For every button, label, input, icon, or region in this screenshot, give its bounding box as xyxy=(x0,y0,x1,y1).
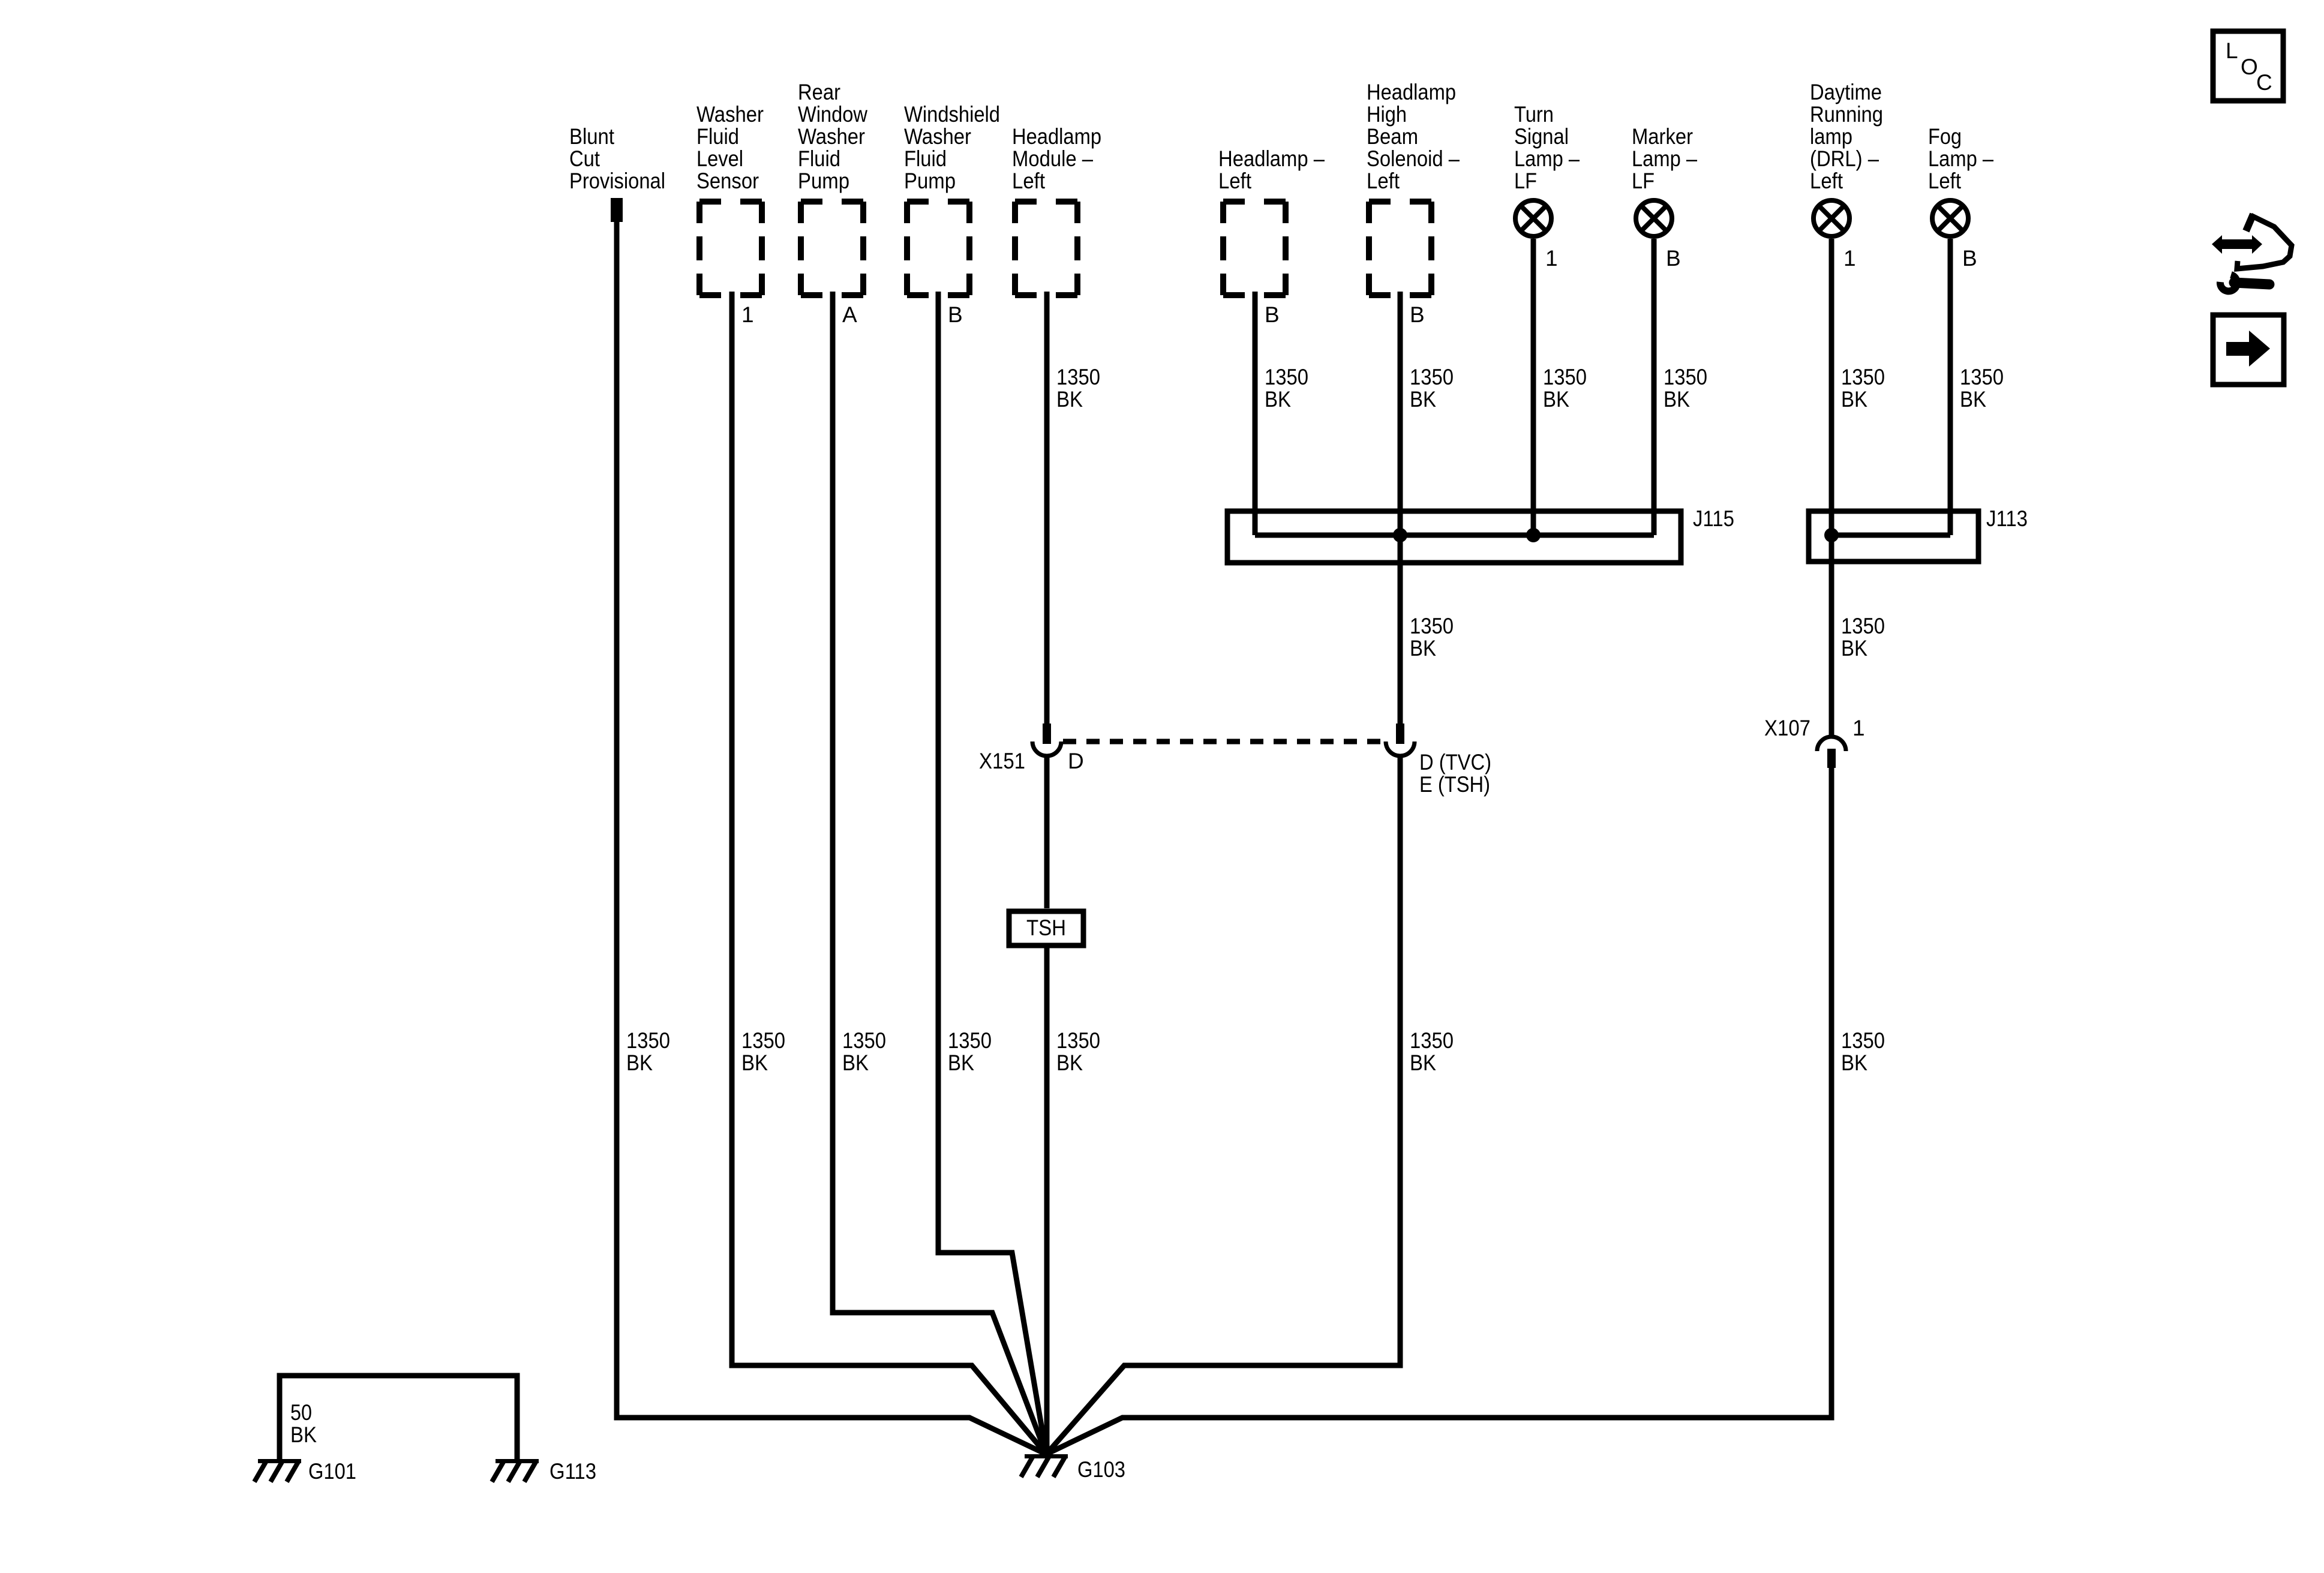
svg-text:Fluid: Fluid xyxy=(696,124,739,149)
wire: solenoid below TVC connector to G103 xyxy=(1046,756,1400,1454)
svg-text:J113: J113 xyxy=(1986,506,2028,531)
svg-text:B: B xyxy=(1666,246,1681,271)
wire: blunt cut provisional to G103 xyxy=(617,222,1046,1454)
pin 1: washer fluid level sensor xyxy=(741,302,754,327)
svg-text:A: A xyxy=(842,302,857,327)
pin B: marker lamp xyxy=(1666,246,1681,271)
svg-text:G101: G101 xyxy=(308,1459,356,1484)
ground G103 xyxy=(1021,1454,1068,1477)
svg-text:1350: 1350 xyxy=(626,1028,670,1053)
svg-text:BK: BK xyxy=(1056,1050,1083,1075)
svg-text:Rear: Rear xyxy=(798,80,840,104)
wire label 1350 BK (DRL) xyxy=(1841,365,1885,412)
svg-text:BK: BK xyxy=(1410,636,1436,661)
svg-text:B: B xyxy=(1265,302,1280,327)
wire: fog lamp to J113 xyxy=(1948,239,1953,535)
wire label 1350 BK (windshield pump, lower) xyxy=(948,1028,992,1075)
wire: rear window washer fluid pump pin A to G103 xyxy=(833,292,1046,1454)
label: Blunt Cut Provisional xyxy=(569,124,665,193)
lamp: daytime running lamp DRL left xyxy=(1813,200,1849,236)
svg-text:BK: BK xyxy=(1410,1050,1436,1075)
svg-text:Level: Level xyxy=(696,146,743,171)
label: Headlamp Module - Left xyxy=(1012,124,1101,193)
svg-text:TSH: TSH xyxy=(1026,915,1066,940)
svg-text:Fog: Fog xyxy=(1928,124,1962,149)
svg-text:1350: 1350 xyxy=(842,1028,886,1053)
label TSH xyxy=(1026,915,1066,940)
LOC reference box xyxy=(2213,31,2283,101)
connector: rear window washer fluid pump (dashed box) xyxy=(801,202,863,295)
svg-text:Headlamp: Headlamp xyxy=(1367,80,1456,104)
wire label 1350 BK (below J115) xyxy=(1410,614,1454,661)
svg-text:Provisional: Provisional xyxy=(569,169,665,193)
label: Turn Signal Lamp - LF xyxy=(1514,102,1580,193)
wire: washer fluid level sensor pin 1 to G103 xyxy=(732,292,1046,1454)
label G101 xyxy=(308,1459,356,1484)
svg-text:(DRL) –: (DRL) – xyxy=(1810,146,1879,171)
svg-text:1350: 1350 xyxy=(1056,365,1100,389)
wire: DRL lamp through J113 to X107 xyxy=(1829,239,1834,737)
svg-text:Blunt: Blunt xyxy=(569,124,615,149)
label G113 xyxy=(550,1459,596,1484)
wire: TSH to G103 xyxy=(1044,948,1050,1454)
svg-text:BK: BK xyxy=(1841,1050,1867,1075)
label: Windshield Washer Fluid Pump xyxy=(904,102,1000,193)
svg-text:1350: 1350 xyxy=(1841,365,1885,389)
wire label 1350 BK (solenoid) xyxy=(1410,365,1454,412)
svg-text:1350: 1350 xyxy=(1960,365,2004,389)
wire label 1350 BK (blunt cut, lower) xyxy=(626,1028,670,1075)
svg-text:Daytime: Daytime xyxy=(1810,80,1882,104)
svg-text:BK: BK xyxy=(1543,387,1569,412)
wire label 1350 BK (headlamp module, lower) xyxy=(1056,1028,1100,1075)
svg-text:Windshield: Windshield xyxy=(904,102,1000,127)
label: Rear Window Washer Fluid Pump xyxy=(798,80,867,193)
svg-text:1350: 1350 xyxy=(1410,614,1454,638)
label: Marker Lamp - LF xyxy=(1632,124,1697,193)
J115 internal bus wire xyxy=(1255,533,1654,538)
svg-text:J115: J115 xyxy=(1693,506,1734,531)
svg-text:1350: 1350 xyxy=(1841,614,1885,638)
pin B: fog lamp xyxy=(1962,246,1977,271)
wire: headlamp left pin B to J115 xyxy=(1253,292,1258,535)
connector: headlamp left (dashed box) xyxy=(1223,202,1286,295)
label J113 xyxy=(1986,506,2028,531)
lamp: turn signal lamp LF xyxy=(1515,200,1551,236)
pin 1: turn signal lamp xyxy=(1545,246,1558,271)
pin D label (X151) xyxy=(1068,749,1084,773)
wire: turn signal lamp to J115 xyxy=(1531,239,1536,535)
blunt cut terminal xyxy=(611,198,623,222)
svg-text:D (TVC): D (TVC) xyxy=(1419,750,1491,775)
connector: windshield washer fluid pump (dashed box) xyxy=(907,202,969,295)
wire label 1350 BK (headlamp left) xyxy=(1265,365,1308,412)
svg-text:X107: X107 xyxy=(1764,716,1810,740)
wire: 50 BK strap G101 to G113 xyxy=(280,1376,517,1459)
junction block J113 xyxy=(1809,511,1978,562)
svg-text:Sensor: Sensor xyxy=(696,169,759,193)
svg-text:1350: 1350 xyxy=(1265,365,1308,389)
wire label 1350 BK (headlamp module) xyxy=(1056,365,1100,412)
svg-text:BK: BK xyxy=(1056,387,1083,412)
pin label D (TVC) xyxy=(1419,750,1491,775)
svg-text:Headlamp: Headlamp xyxy=(1012,124,1101,149)
lamp: marker lamp LF xyxy=(1636,200,1672,236)
svg-text:1350: 1350 xyxy=(1410,1028,1454,1053)
svg-text:BK: BK xyxy=(1664,387,1690,412)
svg-text:Left: Left xyxy=(1810,169,1843,193)
wire label 1350 BK (DRL, lower) xyxy=(1841,1028,1885,1075)
svg-text:Lamp –: Lamp – xyxy=(1514,146,1580,171)
connector: headlamp module left (dashed box) xyxy=(1015,202,1077,295)
svg-text:B: B xyxy=(1410,302,1425,327)
svg-text:X151: X151 xyxy=(979,749,1025,773)
svg-text:Cut: Cut xyxy=(569,146,600,171)
svg-text:BK: BK xyxy=(1265,387,1291,412)
connector X107 (DRL wire) xyxy=(1817,737,1846,768)
svg-text:1350: 1350 xyxy=(1841,1028,1885,1053)
label: Daytime Running lamp (DRL) - Left xyxy=(1810,80,1883,193)
svg-text:lamp: lamp xyxy=(1810,124,1852,149)
wire label 1350 BK (turn signal) xyxy=(1543,365,1587,412)
label: Headlamp - Left xyxy=(1218,146,1325,193)
svg-text:Pump: Pump xyxy=(904,169,956,193)
svg-text:Lamp –: Lamp – xyxy=(1928,146,1993,171)
ground G113 xyxy=(492,1459,539,1482)
svg-text:Washer: Washer xyxy=(696,102,764,127)
svg-text:1: 1 xyxy=(1545,246,1558,271)
svg-text:Left: Left xyxy=(1218,169,1252,193)
pin A: rear window washer fluid pump xyxy=(842,302,857,327)
wire label 1350 BK (fog lamp) xyxy=(1960,365,2004,412)
svg-text:Washer: Washer xyxy=(798,124,865,149)
label: Washer Fluid Level Sensor xyxy=(696,102,764,193)
ground G101 xyxy=(254,1459,301,1482)
svg-text:Left: Left xyxy=(1367,169,1400,193)
svg-text:D: D xyxy=(1068,749,1084,773)
wire label 1350 BK (rear window pump, lower) xyxy=(842,1028,886,1075)
wire label 1350 BK (marker lamp) xyxy=(1664,365,1707,412)
svg-text:BK: BK xyxy=(1960,387,1986,412)
svg-text:1350: 1350 xyxy=(1410,365,1454,389)
J113 internal bus wire xyxy=(1831,533,1950,538)
wire: solenoid pin B through J115 to TVC connector xyxy=(1398,292,1403,724)
svg-text:B: B xyxy=(1962,246,1977,271)
label X107 xyxy=(1764,716,1810,740)
svg-text:BK: BK xyxy=(1410,387,1436,412)
svg-text:Washer: Washer xyxy=(904,124,971,149)
svg-text:BK: BK xyxy=(1841,387,1867,412)
svg-text:1350: 1350 xyxy=(1543,365,1587,389)
svg-text:Beam: Beam xyxy=(1367,124,1418,149)
label G103 xyxy=(1077,1457,1125,1482)
junction node (solenoid tap) xyxy=(1393,528,1407,542)
svg-text:BK: BK xyxy=(842,1050,869,1075)
svg-text:BK: BK xyxy=(290,1422,317,1447)
connector: washer fluid level sensor (dashed box) xyxy=(699,202,762,295)
svg-text:BK: BK xyxy=(626,1050,653,1075)
svg-text:Module –: Module – xyxy=(1012,146,1093,171)
wire: below X151 to TSH xyxy=(1044,756,1050,908)
svg-text:Signal: Signal xyxy=(1514,124,1569,149)
wire: below X107 to G103 xyxy=(1046,768,1831,1454)
wire label 1350 BK (below J113) xyxy=(1841,614,1885,661)
wire label 1350 BK (solenoid, lower) xyxy=(1410,1028,1454,1075)
svg-text:Marker: Marker xyxy=(1632,124,1693,149)
svg-text:1: 1 xyxy=(1843,246,1856,271)
wire: headlamp module left to X151 xyxy=(1044,292,1050,724)
svg-text:BK: BK xyxy=(948,1050,974,1075)
svg-text:L: L xyxy=(2226,38,2238,63)
connector X151 (headlamp module wire) xyxy=(1032,724,1061,756)
connector: headlamp high beam solenoid left (dashed box) xyxy=(1369,202,1431,295)
svg-text:1350: 1350 xyxy=(1664,365,1707,389)
svg-text:Turn: Turn xyxy=(1514,102,1554,127)
svg-text:High: High xyxy=(1367,102,1407,127)
pin 1: daytime running lamp xyxy=(1843,246,1856,271)
svg-text:Left: Left xyxy=(1012,169,1046,193)
svg-text:1350: 1350 xyxy=(948,1028,992,1053)
svg-text:Headlamp –: Headlamp – xyxy=(1218,146,1325,171)
pin B: headlamp high beam solenoid xyxy=(1410,302,1425,327)
svg-text:BK: BK xyxy=(1841,636,1867,661)
svg-text:1: 1 xyxy=(741,302,754,327)
svg-text:G103: G103 xyxy=(1077,1457,1125,1482)
junction node (turn signal tap) xyxy=(1526,528,1541,542)
svg-text:Running: Running xyxy=(1810,102,1883,127)
svg-text:Left: Left xyxy=(1928,169,1962,193)
forward arrow box icon xyxy=(2213,315,2284,385)
label J115 xyxy=(1693,506,1734,531)
label: Fog Lamp - Left xyxy=(1928,124,1993,193)
pin B: windshield washer fluid pump xyxy=(948,302,963,327)
svg-text:1: 1 xyxy=(1852,716,1865,740)
svg-text:Pump: Pump xyxy=(798,169,849,193)
svg-text:1350: 1350 xyxy=(741,1028,785,1053)
label: Headlamp High Beam Solenoid - Left xyxy=(1367,80,1460,193)
svg-text:Fluid: Fluid xyxy=(798,146,840,171)
label X151 xyxy=(979,749,1025,773)
svg-text:BK: BK xyxy=(741,1050,768,1075)
svg-text:E (TSH): E (TSH) xyxy=(1419,772,1490,797)
svg-text:50: 50 xyxy=(290,1400,312,1425)
junction block J115 xyxy=(1227,511,1681,563)
wire label 1350 BK (washer sensor, lower) xyxy=(741,1028,785,1075)
connector (TVC/TSH side) on solenoid wire xyxy=(1386,724,1415,756)
wire: marker lamp to J115 xyxy=(1652,239,1657,535)
svg-text:G113: G113 xyxy=(550,1459,596,1484)
svg-text:Window: Window xyxy=(798,102,867,127)
wire: windshield washer fluid pump pin B to G103 xyxy=(938,292,1046,1454)
junction node (DRL tap) xyxy=(1824,528,1839,542)
svg-text:Lamp –: Lamp – xyxy=(1632,146,1697,171)
svg-text:B: B xyxy=(948,302,963,327)
svg-text:C: C xyxy=(2256,70,2272,95)
pin label E (TSH) xyxy=(1419,772,1490,797)
TSH splice box xyxy=(1009,911,1083,945)
svg-text:Solenoid –: Solenoid – xyxy=(1367,146,1460,171)
pin 1 label (X107) xyxy=(1852,716,1865,740)
svg-text:LF: LF xyxy=(1514,169,1537,193)
dashed connector link X151 to TVC xyxy=(1063,739,1385,745)
wire label 50 BK xyxy=(290,1400,317,1447)
pin B: headlamp left xyxy=(1265,302,1280,327)
service/diagnostic icon (arrow, part outline, wrench) xyxy=(2212,214,2292,291)
lamp: fog lamp left xyxy=(1932,200,1968,236)
svg-text:1350: 1350 xyxy=(1056,1028,1100,1053)
svg-text:Fluid: Fluid xyxy=(904,146,947,171)
svg-text:O: O xyxy=(2241,55,2258,79)
svg-text:LF: LF xyxy=(1632,169,1655,193)
